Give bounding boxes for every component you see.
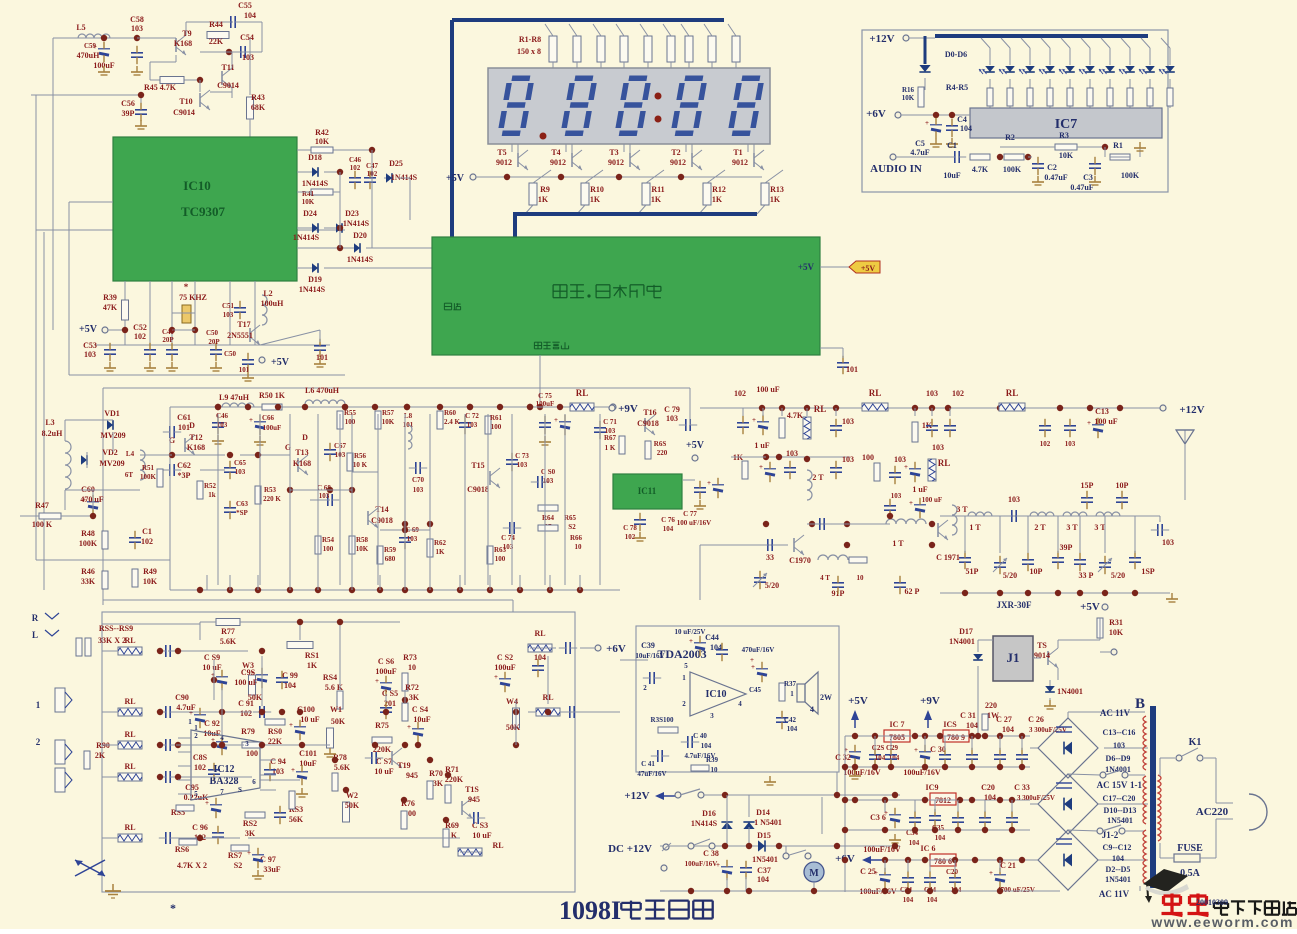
svg-text:D17: D17 bbox=[959, 627, 973, 636]
svg-text:102: 102 bbox=[625, 533, 636, 541]
svg-text:104: 104 bbox=[966, 721, 978, 730]
svg-text:1N5401: 1N5401 bbox=[1107, 816, 1133, 825]
svg-text:RS0: RS0 bbox=[268, 727, 282, 736]
svg-text:+12V: +12V bbox=[1179, 404, 1204, 416]
svg-text:4: 4 bbox=[738, 700, 742, 708]
svg-text:RS4: RS4 bbox=[323, 673, 337, 682]
svg-text:C53: C53 bbox=[83, 341, 97, 350]
svg-text:1K: 1K bbox=[538, 195, 549, 204]
svg-text:2: 2 bbox=[194, 732, 198, 740]
svg-text:+: + bbox=[989, 869, 993, 877]
svg-text:C4: C4 bbox=[957, 115, 967, 124]
svg-text:1: 1 bbox=[36, 700, 41, 710]
svg-text:+: + bbox=[759, 463, 763, 471]
svg-text:470 uF: 470 uF bbox=[80, 495, 103, 504]
svg-text:R62: R62 bbox=[434, 539, 447, 547]
svg-text:33: 33 bbox=[766, 553, 774, 562]
svg-text:100uH: 100uH bbox=[261, 299, 284, 308]
svg-text:102: 102 bbox=[1040, 440, 1051, 448]
svg-text:10K: 10K bbox=[1109, 628, 1124, 637]
svg-text:C13: C13 bbox=[1095, 407, 1109, 416]
svg-text:103: 103 bbox=[407, 535, 418, 543]
svg-text:102: 102 bbox=[194, 763, 206, 772]
svg-text:0.47uF: 0.47uF bbox=[1070, 183, 1093, 192]
svg-text:C S9: C S9 bbox=[204, 653, 220, 662]
svg-text:75 KHZ: 75 KHZ bbox=[179, 293, 207, 302]
svg-text:2.4 K: 2.4 K bbox=[444, 418, 461, 426]
svg-text:+: + bbox=[689, 637, 693, 645]
svg-text:D6--D9: D6--D9 bbox=[1106, 754, 1131, 763]
svg-text:*SP: *SP bbox=[236, 509, 248, 517]
svg-text:4.7K: 4.7K bbox=[972, 165, 989, 174]
svg-text:R31: R31 bbox=[1109, 618, 1123, 627]
svg-text:+: + bbox=[289, 721, 293, 729]
svg-text:104: 104 bbox=[909, 839, 920, 847]
svg-text:C17--C20: C17--C20 bbox=[1103, 794, 1136, 803]
svg-text:102: 102 bbox=[952, 389, 964, 398]
svg-text:104: 104 bbox=[935, 834, 946, 842]
svg-text:C8S: C8S bbox=[193, 753, 208, 762]
svg-text:IC11: IC11 bbox=[638, 486, 657, 496]
svg-text:+9V: +9V bbox=[920, 695, 940, 707]
svg-text:C 26: C 26 bbox=[1028, 715, 1044, 724]
svg-text:S2: S2 bbox=[234, 861, 242, 870]
svg-text:104: 104 bbox=[927, 896, 938, 904]
svg-text:C S0: C S0 bbox=[541, 468, 556, 476]
svg-text:9012: 9012 bbox=[550, 158, 566, 167]
svg-text:JXR-30F: JXR-30F bbox=[997, 600, 1032, 610]
svg-text:+6V: +6V bbox=[606, 643, 626, 655]
svg-text:IC10: IC10 bbox=[183, 178, 210, 193]
svg-text:1K: 1K bbox=[436, 548, 446, 556]
svg-text:9012: 9012 bbox=[496, 158, 512, 167]
svg-text:C 30: C 30 bbox=[930, 745, 946, 754]
svg-text:+: + bbox=[752, 416, 756, 424]
svg-text:103: 103 bbox=[1113, 741, 1125, 750]
svg-text:220: 220 bbox=[985, 701, 997, 710]
svg-text:D14: D14 bbox=[756, 808, 770, 817]
svg-text:+: + bbox=[554, 416, 558, 424]
svg-text:3 T: 3 T bbox=[1094, 523, 1106, 532]
svg-text:+: + bbox=[716, 861, 720, 869]
svg-text:C 78: C 78 bbox=[623, 524, 637, 532]
svg-text:+: + bbox=[707, 479, 711, 487]
svg-text:10uF/16V: 10uF/16V bbox=[635, 652, 664, 660]
svg-text:C 41: C 41 bbox=[641, 760, 655, 768]
svg-text:104: 104 bbox=[757, 875, 769, 884]
svg-text:1: 1 bbox=[194, 724, 198, 732]
svg-text:+: + bbox=[251, 669, 255, 677]
svg-text:103: 103 bbox=[242, 53, 254, 62]
svg-text:C 71: C 71 bbox=[603, 418, 617, 426]
svg-text:RS1: RS1 bbox=[305, 651, 319, 660]
svg-text:+5V: +5V bbox=[79, 324, 98, 335]
svg-text:C 33: C 33 bbox=[1014, 783, 1030, 792]
svg-text:20P: 20P bbox=[208, 338, 220, 346]
svg-text:103: 103 bbox=[131, 24, 143, 33]
svg-text:1K: 1K bbox=[712, 195, 723, 204]
svg-text:C2: C2 bbox=[1047, 163, 1057, 172]
svg-text:R6S: R6S bbox=[654, 440, 667, 448]
svg-text:5/20: 5/20 bbox=[1111, 571, 1125, 580]
svg-text:50K: 50K bbox=[506, 723, 521, 732]
svg-text:C S2: C S2 bbox=[497, 653, 513, 662]
svg-text:62 P: 62 P bbox=[905, 587, 920, 596]
svg-text:5.6K: 5.6K bbox=[220, 637, 237, 646]
svg-text:RL: RL bbox=[124, 730, 135, 739]
svg-text:4 T: 4 T bbox=[820, 574, 830, 582]
svg-text:10K: 10K bbox=[315, 137, 330, 146]
svg-text:W1: W1 bbox=[330, 705, 342, 714]
svg-text:33uF: 33uF bbox=[263, 865, 280, 874]
svg-text:C S6: C S6 bbox=[378, 657, 394, 666]
svg-text:C 25: C 25 bbox=[860, 867, 876, 876]
svg-text:101: 101 bbox=[316, 353, 328, 362]
svg-text:102: 102 bbox=[350, 164, 361, 172]
svg-text:3K: 3K bbox=[433, 779, 444, 788]
svg-text:15P: 15P bbox=[1081, 481, 1094, 490]
svg-text:C1: C1 bbox=[142, 527, 152, 536]
svg-text:R52: R52 bbox=[204, 482, 217, 490]
svg-text:100 uF/16V: 100 uF/16V bbox=[677, 519, 711, 527]
svg-text:100K: 100K bbox=[1121, 171, 1140, 180]
svg-text:L4: L4 bbox=[126, 450, 135, 458]
svg-text:103: 103 bbox=[543, 477, 554, 485]
svg-text:3: 3 bbox=[245, 740, 249, 748]
svg-text:10P: 10P bbox=[1116, 481, 1129, 490]
svg-text:10K: 10K bbox=[356, 545, 369, 553]
svg-text:IC 7: IC 7 bbox=[890, 720, 905, 729]
svg-text:C 94: C 94 bbox=[270, 757, 286, 766]
svg-text:1 T: 1 T bbox=[892, 539, 904, 548]
svg-text:T15: T15 bbox=[471, 461, 484, 470]
svg-text:100: 100 bbox=[491, 423, 502, 431]
svg-text:C9018: C9018 bbox=[467, 485, 489, 494]
svg-text:K1: K1 bbox=[1189, 737, 1202, 748]
svg-text:3 300uF/25V: 3 300uF/25V bbox=[1017, 794, 1055, 802]
svg-text:T4: T4 bbox=[551, 148, 560, 157]
svg-text:AUDIO IN: AUDIO IN bbox=[870, 163, 922, 175]
svg-text:56K: 56K bbox=[289, 815, 304, 824]
svg-text:C66: C66 bbox=[262, 414, 275, 422]
svg-text:10 uF: 10 uF bbox=[472, 831, 491, 840]
svg-text:100K: 100K bbox=[1003, 165, 1022, 174]
svg-text:33K: 33K bbox=[81, 577, 96, 586]
svg-text:10K: 10K bbox=[902, 94, 915, 102]
svg-text:22K: 22K bbox=[209, 37, 224, 46]
svg-text:4.7K: 4.7K bbox=[787, 411, 804, 420]
svg-text:100uF: 100uF bbox=[375, 667, 396, 676]
svg-text:IC10: IC10 bbox=[705, 689, 726, 700]
svg-text:102: 102 bbox=[240, 709, 252, 718]
svg-text:2 T: 2 T bbox=[1034, 523, 1046, 532]
svg-text:1N5401: 1N5401 bbox=[752, 855, 778, 864]
svg-text:10: 10 bbox=[575, 543, 583, 551]
svg-text:100uF/16V: 100uF/16V bbox=[903, 768, 941, 777]
svg-text:1-1: 1-1 bbox=[1130, 780, 1142, 790]
svg-text:RL: RL bbox=[869, 388, 882, 398]
svg-text:C 27: C 27 bbox=[996, 715, 1012, 724]
svg-text:C S5: C S5 bbox=[382, 689, 398, 698]
svg-text:R39: R39 bbox=[103, 293, 117, 302]
svg-text:+5V: +5V bbox=[271, 357, 290, 368]
svg-text:ICS: ICS bbox=[943, 720, 957, 729]
svg-text:9012: 9012 bbox=[608, 158, 624, 167]
svg-text:L9 47uH: L9 47uH bbox=[219, 393, 250, 402]
svg-text:103: 103 bbox=[786, 449, 798, 458]
svg-text:104: 104 bbox=[787, 725, 798, 733]
svg-text:104: 104 bbox=[903, 896, 914, 904]
svg-text:R57: R57 bbox=[382, 409, 395, 417]
svg-text:RS7: RS7 bbox=[228, 851, 242, 860]
svg-text:R41: R41 bbox=[302, 190, 315, 198]
svg-text:C 92: C 92 bbox=[204, 719, 220, 728]
svg-text:+9V: +9V bbox=[618, 403, 638, 415]
svg-text:T2: T2 bbox=[671, 148, 680, 157]
svg-text:+5V: +5V bbox=[686, 440, 705, 451]
svg-text:10 uF: 10 uF bbox=[300, 715, 319, 724]
svg-text:100: 100 bbox=[345, 418, 356, 426]
svg-text:+: + bbox=[249, 416, 253, 424]
svg-text:R66: R66 bbox=[570, 534, 583, 542]
svg-text:T19: T19 bbox=[397, 761, 410, 770]
svg-text:R37: R37 bbox=[784, 680, 797, 688]
svg-text:+: + bbox=[914, 746, 918, 754]
svg-text:AC 11V: AC 11V bbox=[1100, 708, 1131, 718]
svg-text:10uF: 10uF bbox=[943, 171, 960, 180]
svg-text:R13: R13 bbox=[770, 185, 784, 194]
svg-text:100 uF: 100 uF bbox=[1094, 417, 1117, 426]
svg-text:39P: 39P bbox=[1060, 543, 1073, 552]
svg-text:+: + bbox=[407, 723, 411, 731]
svg-text:K168: K168 bbox=[293, 459, 311, 468]
svg-text:D16: D16 bbox=[702, 809, 716, 818]
svg-text:5/20: 5/20 bbox=[765, 581, 779, 590]
svg-text:0.47uF: 0.47uF bbox=[1044, 173, 1067, 182]
svg-text:100 uF: 100 uF bbox=[922, 496, 942, 504]
svg-text:10 uF/25V: 10 uF/25V bbox=[675, 628, 706, 636]
svg-text:103: 103 bbox=[517, 461, 528, 469]
svg-text:9014: 9014 bbox=[1034, 651, 1050, 660]
svg-text:C62: C62 bbox=[177, 461, 191, 470]
svg-text:C 76: C 76 bbox=[661, 516, 675, 524]
svg-text:100 uF: 100 uF bbox=[234, 678, 257, 687]
svg-text:103: 103 bbox=[1008, 495, 1020, 504]
svg-text:102: 102 bbox=[141, 537, 153, 546]
svg-text:10: 10 bbox=[408, 663, 416, 672]
svg-text:C46: C46 bbox=[349, 156, 362, 164]
svg-text:C29: C29 bbox=[886, 744, 899, 752]
svg-text:R65: R65 bbox=[564, 514, 577, 522]
svg-text:*: * bbox=[170, 901, 176, 915]
svg-text:R3: R3 bbox=[1059, 131, 1069, 140]
svg-text:6: 6 bbox=[252, 778, 256, 786]
svg-text:1K: 1K bbox=[307, 661, 318, 670]
svg-text:+: + bbox=[925, 119, 929, 127]
svg-text:RL: RL bbox=[1006, 388, 1019, 398]
svg-text:T14: T14 bbox=[375, 505, 388, 514]
svg-text:C20: C20 bbox=[981, 783, 995, 792]
svg-text:1N4001: 1N4001 bbox=[949, 637, 975, 646]
svg-text:1098I: 1098I bbox=[559, 896, 621, 925]
svg-text:1: 1 bbox=[790, 690, 794, 698]
svg-text:5: 5 bbox=[684, 662, 688, 670]
svg-text:IC12: IC12 bbox=[213, 764, 234, 775]
svg-text:100 uF: 100 uF bbox=[756, 385, 779, 394]
svg-text:50K: 50K bbox=[345, 801, 360, 810]
svg-text:9012: 9012 bbox=[670, 158, 686, 167]
svg-text:J1: J1 bbox=[1007, 650, 1020, 665]
svg-text:100: 100 bbox=[495, 555, 506, 563]
svg-text:C 96: C 96 bbox=[192, 823, 208, 832]
svg-text:VD1: VD1 bbox=[104, 409, 120, 418]
svg-text:MV209: MV209 bbox=[99, 459, 124, 468]
svg-text:R4-R5: R4-R5 bbox=[946, 83, 968, 92]
svg-text:C 38: C 38 bbox=[703, 849, 719, 858]
svg-text:+: + bbox=[247, 849, 251, 857]
svg-text:1SP: 1SP bbox=[1141, 567, 1154, 576]
svg-text:C S4: C S4 bbox=[412, 705, 428, 714]
svg-text:C44: C44 bbox=[705, 633, 719, 642]
svg-text:102: 102 bbox=[734, 389, 746, 398]
svg-text:10 K: 10 K bbox=[353, 461, 368, 469]
svg-text:+: + bbox=[291, 766, 295, 774]
svg-text:+: + bbox=[189, 709, 193, 717]
svg-text:T13: T13 bbox=[295, 448, 308, 457]
svg-text:4.7K X 2: 4.7K X 2 bbox=[177, 861, 207, 870]
svg-text:C9018: C9018 bbox=[637, 419, 659, 428]
svg-text:10: 10 bbox=[857, 574, 865, 582]
svg-text:D23: D23 bbox=[345, 209, 359, 218]
svg-text:C56: C56 bbox=[121, 99, 135, 108]
svg-text:C65: C65 bbox=[234, 459, 247, 467]
svg-text:RL: RL bbox=[124, 823, 135, 832]
svg-text:5: 5 bbox=[194, 790, 198, 798]
svg-text:BA328: BA328 bbox=[210, 776, 239, 787]
svg-text:C2S: C2S bbox=[872, 744, 885, 752]
svg-text:1: 1 bbox=[682, 674, 686, 682]
svg-text:104: 104 bbox=[875, 754, 886, 762]
svg-text:C 91: C 91 bbox=[238, 699, 254, 708]
svg-text:104: 104 bbox=[984, 793, 996, 802]
svg-text:780 6: 780 6 bbox=[934, 857, 952, 866]
svg-text:IC9: IC9 bbox=[926, 783, 939, 792]
svg-text:1 T: 1 T bbox=[969, 523, 981, 532]
svg-text:100: 100 bbox=[862, 453, 874, 462]
svg-text:C 73: C 73 bbox=[515, 452, 529, 460]
svg-text:103: 103 bbox=[413, 486, 424, 494]
svg-text:C42: C42 bbox=[784, 716, 797, 724]
svg-text:L3: L3 bbox=[45, 418, 54, 427]
svg-text:C9018: C9018 bbox=[371, 516, 393, 525]
svg-text:3K: 3K bbox=[245, 829, 256, 838]
svg-text:104: 104 bbox=[701, 742, 712, 750]
svg-text:1K: 1K bbox=[590, 195, 601, 204]
svg-text:39P: 39P bbox=[122, 109, 135, 118]
svg-text:C 79: C 79 bbox=[664, 405, 680, 414]
svg-text:9012: 9012 bbox=[732, 158, 748, 167]
svg-text:VD2: VD2 bbox=[102, 448, 118, 457]
svg-text:C9--C12: C9--C12 bbox=[1103, 843, 1132, 852]
svg-text:R64: R64 bbox=[542, 514, 555, 522]
svg-text:C 74: C 74 bbox=[501, 534, 515, 542]
svg-text:50K: 50K bbox=[331, 717, 346, 726]
svg-text:R56: R56 bbox=[354, 452, 367, 460]
svg-text:*: * bbox=[184, 282, 189, 292]
svg-text:RL: RL bbox=[814, 404, 827, 414]
svg-text:33K X 2: 33K X 2 bbox=[98, 636, 126, 645]
svg-text:C 40: C 40 bbox=[693, 732, 707, 740]
svg-text:4: 4 bbox=[810, 705, 814, 714]
svg-text:103: 103 bbox=[926, 389, 938, 398]
svg-text:+5V: +5V bbox=[446, 173, 465, 184]
svg-text:150 x 8: 150 x 8 bbox=[517, 47, 541, 56]
svg-text:945: 945 bbox=[468, 795, 480, 804]
svg-text:1 K: 1 K bbox=[605, 444, 616, 452]
svg-text:+: + bbox=[375, 677, 379, 685]
svg-text:R70: R70 bbox=[429, 769, 443, 778]
svg-text:100: 100 bbox=[246, 749, 258, 758]
svg-text:2N5551: 2N5551 bbox=[227, 331, 253, 340]
svg-text:C 1971: C 1971 bbox=[936, 553, 960, 562]
svg-text:R10: R10 bbox=[590, 185, 604, 194]
svg-text:RL: RL bbox=[576, 388, 589, 398]
svg-text:+: + bbox=[904, 463, 908, 471]
svg-text:2W: 2W bbox=[820, 693, 832, 702]
svg-text:R53: R53 bbox=[264, 486, 277, 494]
svg-text:T3: T3 bbox=[609, 148, 618, 157]
svg-text:RS6: RS6 bbox=[175, 845, 189, 854]
svg-text:1N5401: 1N5401 bbox=[1105, 875, 1131, 884]
svg-text:R54: R54 bbox=[322, 536, 335, 544]
svg-text:R45 4.7K: R45 4.7K bbox=[144, 83, 177, 92]
svg-text:RSS--RS9: RSS--RS9 bbox=[99, 624, 133, 633]
svg-text:1N414S: 1N414S bbox=[293, 233, 320, 242]
svg-text:10uF: 10uF bbox=[413, 715, 430, 724]
svg-text:C 75: C 75 bbox=[538, 392, 552, 400]
svg-text:T1: T1 bbox=[733, 148, 742, 157]
svg-text:C 32: C 32 bbox=[835, 753, 851, 762]
svg-text:1N414S: 1N414S bbox=[347, 255, 374, 264]
svg-text:104: 104 bbox=[1002, 725, 1014, 734]
svg-text:T9: T9 bbox=[182, 29, 191, 38]
svg-text:C3 6: C3 6 bbox=[870, 813, 886, 822]
svg-text:R55: R55 bbox=[344, 409, 357, 417]
svg-text:220 K: 220 K bbox=[263, 495, 281, 503]
svg-text:R43: R43 bbox=[251, 93, 265, 102]
svg-text:1 uF: 1 uF bbox=[754, 441, 769, 450]
svg-text:IC 6: IC 6 bbox=[921, 844, 936, 853]
svg-text:R75: R75 bbox=[375, 721, 389, 730]
svg-text:D: D bbox=[302, 433, 308, 442]
svg-text:3K: 3K bbox=[409, 693, 420, 702]
svg-text:104: 104 bbox=[960, 124, 972, 133]
svg-text:100K: 100K bbox=[140, 473, 157, 481]
svg-text:C1: C1 bbox=[947, 141, 957, 150]
svg-text:DC +12V: DC +12V bbox=[608, 843, 652, 855]
svg-text:103: 103 bbox=[666, 414, 678, 423]
svg-text:D0-D6: D0-D6 bbox=[945, 50, 967, 59]
svg-text:R2: R2 bbox=[1005, 133, 1015, 142]
svg-text:R3S100: R3S100 bbox=[651, 716, 674, 724]
svg-text:*3P: *3P bbox=[178, 471, 191, 480]
svg-text:1 uF: 1 uF bbox=[912, 485, 927, 494]
svg-text:C70: C70 bbox=[412, 476, 425, 484]
svg-text:R46: R46 bbox=[81, 567, 95, 576]
svg-text:C 99: C 99 bbox=[282, 671, 298, 680]
svg-text:2K: 2K bbox=[95, 751, 106, 760]
svg-text:L5: L5 bbox=[76, 23, 85, 32]
